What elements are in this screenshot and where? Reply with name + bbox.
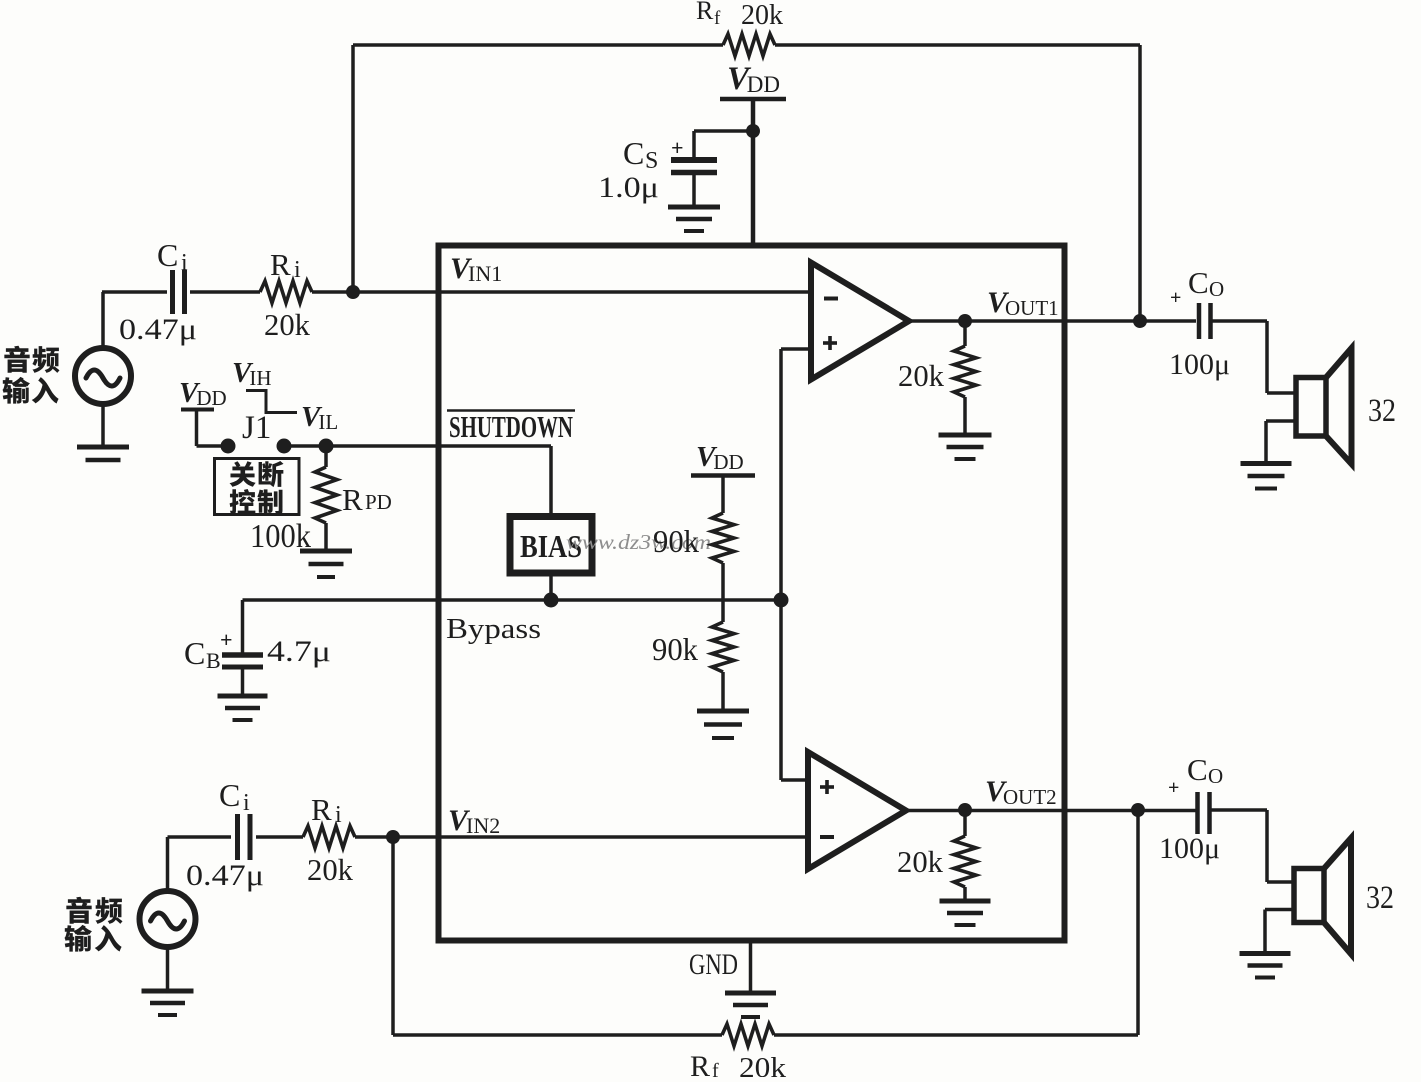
- pin SHUTDOWN: [447, 409, 575, 412]
- resistor 90k lower: [712, 622, 734, 672]
- svg-text:1.0μ: 1.0μ: [598, 171, 659, 204]
- svg-text:100μ: 100μ: [1169, 348, 1230, 381]
- svg-text:0.47μ: 0.47μ: [119, 313, 197, 346]
- svg-text:i: i: [335, 802, 342, 828]
- svg-text:OUT2: OUT2: [1003, 785, 1057, 809]
- resistor Rf1 20k: [723, 34, 775, 56]
- ground source 1: [77, 445, 129, 450]
- node J1 left: [221, 439, 236, 454]
- svg-text:f: f: [714, 8, 721, 29]
- wire CS to ground: [692, 175, 696, 206]
- wire VOUT2 node to 20k: [963, 810, 967, 836]
- resistor 90k upper: [712, 513, 734, 563]
- wire Ri1 to op-amp A1 inverting input: [312, 290, 811, 294]
- svg-text:OUT1: OUT1: [1005, 296, 1059, 320]
- svg-text:32: 32: [1368, 393, 1396, 429]
- pin GND: [749, 940, 753, 991]
- svg-text:100μ: 100μ: [1159, 832, 1220, 865]
- wire top feedback right segment: [775, 43, 1140, 46]
- wire Co1 to speaker 1: [1211, 319, 1268, 323]
- label audio input 1: [4, 346, 29, 373]
- ground speaker 2: [1240, 951, 1291, 956]
- svg-text:20k: 20k: [897, 844, 943, 879]
- wire + input feed (bypass rail vertical): [779, 349, 783, 780]
- resistor Rf2 20k: [722, 1024, 774, 1046]
- capacitor Ci2 0.47u: [235, 814, 240, 860]
- svg-text:R: R: [690, 1050, 710, 1077]
- speaker 2: [1294, 869, 1324, 923]
- wire Ci2 to Ri2: [256, 835, 303, 839]
- wire 90k junction: [721, 563, 725, 622]
- ground divider: [697, 709, 749, 714]
- svg-text:i: i: [181, 250, 188, 276]
- svg-text:C: C: [184, 635, 205, 671]
- svg-text:O: O: [1208, 764, 1223, 788]
- svg-text:IN2: IN2: [466, 813, 500, 838]
- source audio input 1: [75, 348, 131, 404]
- wire to CS: [694, 129, 753, 133]
- wire bypass rail: [243, 598, 782, 602]
- wire VDD to 90k upper: [721, 476, 725, 514]
- wire Ri2 to op-amp A2 inverting input: [355, 835, 808, 839]
- svg-text:+: +: [1170, 287, 1181, 309]
- svg-text:20k: 20k: [898, 358, 944, 393]
- svg-text:C: C: [157, 237, 178, 273]
- svg-text:20k: 20k: [307, 852, 353, 887]
- node RPD junction: [319, 439, 334, 454]
- wire feedback right drop to VOUT1 node: [1138, 45, 1142, 321]
- node bypass to op-amp + feed: [774, 593, 789, 608]
- wire speaker 2 to ground: [1265, 908, 1294, 912]
- wire VOUT1: [909, 319, 1196, 323]
- wire shutdown rail: [284, 444, 438, 448]
- wire SHUTDOWN pin to BIAS: [438, 444, 551, 448]
- wire 90k lower to ground: [721, 672, 725, 709]
- node J1 right: [277, 439, 292, 454]
- wire RPD to ground: [324, 523, 328, 549]
- svg-text:R: R: [270, 247, 291, 282]
- ground 20k out2: [940, 899, 991, 904]
- resistor Ri2 20k: [303, 826, 355, 848]
- ground source 2: [142, 989, 194, 994]
- svg-text:90k: 90k: [653, 523, 699, 559]
- wire VDD to J1: [195, 410, 199, 447]
- svg-text:IL: IL: [318, 410, 338, 434]
- wire 20k out1 to ground: [963, 397, 967, 433]
- svg-text:PD: PD: [365, 490, 392, 514]
- svg-text:32: 32: [1366, 880, 1394, 916]
- speaker 1: [1296, 378, 1326, 437]
- svg-text:C: C: [1187, 752, 1208, 787]
- wire feedback 2 left riser: [391, 837, 395, 1035]
- svg-text:GND: GND: [689, 948, 738, 981]
- svg-text:DD: DD: [747, 72, 780, 97]
- svg-text:DD: DD: [196, 386, 226, 410]
- resistor Ri1 20k: [260, 281, 312, 303]
- svg-text:C: C: [219, 777, 240, 813]
- svg-text:C: C: [623, 135, 644, 171]
- wire speaker 1 to ground: [1266, 419, 1296, 423]
- wire RPD top: [324, 446, 328, 467]
- node VOUT1/feedback: [1133, 314, 1147, 328]
- wire input 1: [102, 290, 167, 294]
- wire feedback 2 bottom: [774, 1033, 1138, 1036]
- node VOUT2/feedback: [1131, 803, 1145, 817]
- label audio input 2: [66, 897, 91, 924]
- wire Co2 to speaker 2: [1210, 808, 1268, 812]
- svg-text:100k: 100k: [250, 518, 311, 555]
- svg-text:f: f: [712, 1060, 719, 1077]
- svg-text:R: R: [696, 0, 714, 25]
- svg-text:R: R: [342, 482, 363, 517]
- wire Ci1 to Ri1: [190, 290, 260, 294]
- svg-text:O: O: [1209, 277, 1224, 301]
- wire + input feed 2: [781, 778, 808, 782]
- wire bypass rail to CB: [241, 600, 245, 653]
- svg-text:+: +: [220, 627, 233, 652]
- svg-text:90k: 90k: [652, 631, 698, 667]
- svg-text:20k: 20k: [741, 0, 783, 31]
- node VDD/CS junction: [746, 124, 760, 138]
- wire feedback left drop to VIN1 node: [351, 45, 355, 292]
- svg-text:20k: 20k: [739, 1052, 787, 1077]
- node VIN2 feedback junction: [386, 830, 400, 844]
- wire top feedback Rf1 left segment: [353, 43, 723, 46]
- ground speaker 1: [1241, 461, 1292, 466]
- capacitor Ci1 0.47u: [170, 270, 175, 314]
- svg-text:DD: DD: [713, 450, 743, 474]
- wire 20k out2 to ground: [963, 887, 967, 899]
- wire feedback 2 right drop: [1136, 810, 1140, 1035]
- op-amp A1: [811, 263, 909, 380]
- node VOUT1/20k: [958, 314, 972, 328]
- wire source 2 to input rail: [166, 837, 170, 891]
- wire BIAS to bypass rail: [549, 573, 553, 599]
- source audio input 2: [140, 891, 196, 947]
- svg-text:0.47μ: 0.47μ: [186, 859, 264, 892]
- shutdown control box (guan duan kong zhi): [215, 459, 300, 515]
- wire source 1 to input rail: [101, 292, 105, 348]
- svg-text:SHUTDOWN: SHUTDOWN: [449, 409, 573, 444]
- svg-text:C: C: [1188, 265, 1209, 300]
- svg-text:20k: 20k: [264, 307, 310, 342]
- block BIAS: [510, 517, 592, 574]
- ground 20k out1: [939, 433, 992, 438]
- wire VOUT1 node to 20k: [963, 321, 967, 346]
- op-amp IC U1 outline: [439, 246, 1065, 941]
- svg-text:i: i: [294, 257, 301, 283]
- svg-text:R: R: [311, 792, 332, 827]
- ground GND pin: [725, 991, 776, 996]
- svg-text:Bypass: Bypass: [446, 613, 541, 645]
- wire input 2: [168, 835, 232, 839]
- wire VOUT2: [906, 809, 1196, 813]
- ground RPD: [300, 549, 352, 554]
- svg-text:i: i: [243, 790, 250, 816]
- node VOUT2/20k: [958, 803, 972, 817]
- ground below CS: [668, 205, 720, 210]
- node bypass/BIAS junction: [544, 593, 559, 608]
- svg-text:+: +: [1168, 777, 1179, 799]
- svg-text:J1: J1: [242, 410, 271, 446]
- ground CB: [218, 694, 268, 699]
- node VIN1 feedback junction: [346, 285, 360, 299]
- svg-text:4.7μ: 4.7μ: [267, 635, 331, 668]
- svg-text:IN1: IN1: [468, 261, 502, 286]
- wire source 2 to ground: [166, 947, 170, 989]
- wire source 1 to ground: [101, 404, 105, 446]
- svg-text:B: B: [206, 648, 221, 673]
- svg-text:+: +: [671, 135, 684, 160]
- svg-text:IH: IH: [249, 366, 271, 390]
- op-amp A2: [808, 752, 906, 869]
- wire CS top: [692, 131, 696, 157]
